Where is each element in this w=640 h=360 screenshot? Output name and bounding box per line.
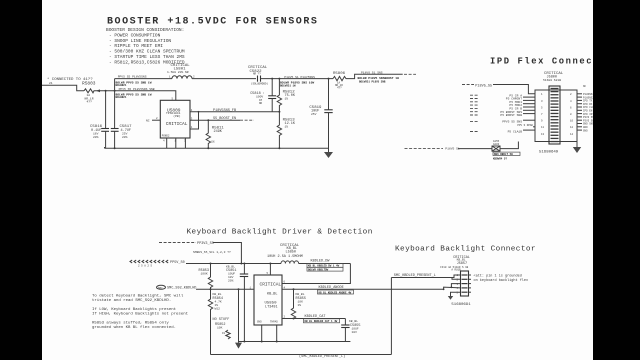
svg-text:KB_BL: KB_BL [349,320,358,323]
svg-text:R5853 always stuffed, R5854 on: R5853 always stuffed, R5854 only [92,321,169,326]
pin wires left [523,97,535,130]
net KBDLED_ANODE [282,286,444,294]
wire detect to ground [238,289,240,341]
svg-text:10K: 10K [217,327,223,330]
connector J5800 body [535,86,577,144]
connector J5800 header [543,72,564,82]
svg-text:If HIGH, Keyboard Backlights n: If HIGH, Keyboard Backlights not present [92,311,188,316]
svg-text:SMC_S92_KBDLHD: SMC_S92_KBDLHD [167,286,196,290]
svg-text:PGND2: PGND2 [162,135,170,138]
svg-text:SMBUS_S5_SCL 1,2,3 ??: SMBUS_S5_SCL 1,2,3 ?? [193,251,231,254]
node 5V rail junctions [210,263,272,265]
svg-text:- RIPPLE TO MEET EMI: - RIPPLE TO MEET EMI [109,43,163,49]
node anode junction [293,288,295,290]
node FB junction [278,111,280,113]
svg-text:20%: 20% [93,136,99,139]
svg-text:NO STUFF: NO STUFF [213,318,230,322]
svg-text:<att: pin 1 is grounded: <att: pin 1 is grounded [474,273,522,278]
svg-text:W12: W12 [215,308,221,311]
svg-text:20%: 20% [122,136,128,139]
wire present to pins1-2 [391,275,460,279]
wire U5809 gnd pins [167,138,186,148]
wire U5850 gnd pins [262,325,277,342]
svg-text:CRITICAL: CRITICAL [166,121,188,127]
resistor R5855 [291,289,306,318]
resistor R5806 [333,72,403,90]
svg-text:P18V5 S1: P18V5 S1 [445,148,460,151]
svg-text:(SOLUDMOBO): (SOLUDMOBO) [251,82,269,86]
wire U5850 vin pin [269,264,271,276]
svg-text:P18V5_S5: P18V5_S5 [475,84,492,88]
net label P18V5_S1 group [280,76,315,87]
node junction A [105,90,107,92]
svg-text:PP3V3_S5: PP3V3_S5 [197,242,214,246]
svg-text:KBDWR4 5?: KBDWR4 5? [493,158,507,161]
svg-text:BOLWR KBDLTDW: BOLWR KBDLTDW [308,269,329,272]
svg-text:Keyboard Backlight Connector: Keyboard Backlight Connector [395,245,536,253]
svg-text:12: 12 [570,126,574,129]
svg-text:LT3491: LT3491 [265,305,278,309]
net SMC_KBDLED_PRESENT_L label [394,274,436,278]
note CONNECTED TO [47,77,93,85]
svg-text:21: 21 [49,82,53,85]
label 51680691 [451,303,471,307]
pin feed dashes left [470,95,479,131]
wire rail riser [114,79,116,129]
svg-text:KBDLED_DW: KBDLED_DW [311,260,331,264]
svg-text:P5 C1A1B: P5 C1A1B [508,131,523,134]
svg-text:2 5 8 2 5: 2 5 8 2 5 [138,265,152,268]
svg-text:BOOSTER +18.5VDC FOR SENSORS: BOOSTER +18.5VDC FOR SENSORS [107,17,318,28]
capacitor C5817 [111,125,132,148]
svg-text:1%: 1% [285,98,289,101]
node EN junction [207,119,209,121]
svg-text:(SMC_KBDLED_PRESENT_L): (SMC_KBDLED_PRESENT_L) [299,354,345,359]
wire dash continuation [404,73,416,75]
wire mid rail to U5809 [115,91,176,101]
svg-text:NR: NR [259,102,263,105]
svg-text:KB_BL: KB_BL [267,293,278,297]
svg-text:GND: GND [257,321,262,324]
svg-text:NR ??: NR ?? [253,72,261,75]
note pin1 grounded [474,273,529,283]
capacitor C5855 [341,319,360,342]
resistor R5854 [208,289,223,354]
svg-text:P5 BOOST SNB: P5 BOOST SNB [500,114,522,117]
svg-text:10V: 10V [352,331,358,334]
node rail junction C5818 [271,78,273,80]
svg-text:GND: GND [583,129,588,132]
svg-text:BOLWR21: BOLWR21 [116,84,127,87]
svg-text:KBDLED_ANODE: KBDLED_ANODE [319,286,344,290]
capacitor C5822 [248,66,268,85]
svg-text:NC: NC [146,120,150,123]
resistor R5853 [199,264,213,290]
svg-text:47?: 47? [87,101,93,104]
wire rail after L5801 [192,78,256,80]
svg-text:249K: 249K [214,130,223,134]
wire U5809 FB net [190,109,279,113]
capacitor C5818 [250,79,276,112]
svg-text:KBDLED_CAT: KBDLED_CAT [305,315,326,319]
inductor L5801 [167,64,195,79]
svg-text:51680 S21B: 51680 S21B [543,79,561,82]
svg-text:A203: A203 [493,143,500,146]
svg-text:P18V5SNS_FB: P18V5SNS_FB [213,109,236,113]
wire SW return to U5850 [282,264,350,284]
svg-text:PPV5 S5 P18V5SNS: PPV5 S5 P18V5SNS [118,76,147,79]
ground symbol top rail [324,152,333,158]
svg-text:1%: 1% [285,126,289,129]
IC U5850 [250,272,286,325]
capacitor C5819 [309,79,332,152]
inductor L5850 [267,244,303,264]
svg-text:SMC: SMC [158,287,163,290]
wire U5809 VIN pin [146,120,160,123]
svg-text:47?: 47? [337,87,342,90]
svg-text:1.5UH 20% NR: 1.5UH 20% NR [167,71,189,74]
svg-text:L5850: L5850 [286,251,297,255]
wire bead to connector [500,142,518,149]
net PP3V3_S5 feed [159,242,241,264]
svg-text:PPV5 S5 P18V5SNS SNB: PPV5 S5 P18V5SNS SNB [119,88,155,91]
wire top rail P18V5 [115,78,172,80]
svg-text:PP5V_S0: PP5V_S0 [170,261,185,265]
svg-text:- 500/300 KHZ CLEAN SPECTRUM: - 500/300 KHZ CLEAN SPECTRUM [109,49,185,55]
net label P18V5_S1_SNS group [358,72,400,84]
title BOOSTER +18.5VDC FOR SENSORS [107,17,318,28]
resistor R5803 [42,81,115,104]
svg-text:Keyboard Backlight Driver & De: Keyboard Backlight Driver & Detection [187,229,373,237]
connector pin numbers [541,93,574,136]
svg-text:NC: NC [583,85,587,88]
svg-text:P18V5 S1 P18V5SNS: P18V5 S1 P18V5SNS [284,76,315,79]
svg-text:51680691: 51680691 [451,303,471,307]
svg-text:tristate and read SMC_S92_KBDL: tristate and read SMC_S92_KBDLHD. [92,298,171,303]
net KBDLED_CAT [282,315,345,323]
svg-text:51680649: 51680649 [539,151,559,155]
right letterbox bar [593,0,640,360]
svg-text:A RU1B: A RU1B [451,269,461,272]
title Keyboard Backlight Connector [395,245,536,253]
net label PPV5_S5_P18V5SNS_SNB [116,88,155,99]
svg-text:25V: 25V [311,113,317,116]
node ground rail junctions [243,341,277,343]
svg-text:PPV S NPAD: PPV S NPAD [517,124,533,127]
node detect junctions [210,288,240,290]
note SMBUS [193,251,231,254]
pin net labels left [500,94,533,133]
capacitor C5816 [90,125,109,148]
resistor R5813 [277,112,296,149]
svg-text:(PB): (PB) [173,114,180,118]
wire anode to pins3-4 [443,284,461,291]
wire ground rail [105,147,329,148]
node cat junction [293,318,295,320]
svg-text:BOLWR21 P18V5 SNB: BOLWR21 P18V5 SNB [359,80,386,83]
svg-text:100K: 100K [201,273,208,276]
IC U5809 [156,98,193,143]
net KBDLED_DW [299,260,351,272]
pin net labels right [583,85,594,132]
ground connector right [573,142,581,154]
svg-text:11: 11 [541,126,545,129]
svg-text:P18V0 S1 SNS: P18V0 S1 SNS [361,72,383,75]
node rail junctions [114,147,281,149]
svg-text:S5_BOOST_EN: S5_BOOST_EN [213,117,236,121]
ground symbol bottom [235,342,242,349]
svg-text:BOOSTER DESIGN CONSIDERATION:: BOOSTER DESIGN CONSIDERATION: [106,27,184,33]
net P18V5_S5 top feed [462,84,535,94]
svg-text:KB BL KBDLED CAT 1 4W: KB BL KBDLED CAT 1 4W [305,320,338,323]
net P18V5_S1 bottom feed [405,148,493,151]
svg-text:1%: 1% [222,332,226,335]
svg-text:- POWER CONSUMPTION: - POWER CONSUMPTION [109,32,161,38]
svg-text:KB BL KBDLED ANODE 4W: KB BL KBDLED ANODE 4W [319,291,352,294]
net label KBD boxes below connector [493,152,520,160]
svg-text:KB_BL: KB_BL [296,293,305,296]
wire C5816 drop [105,91,107,129]
resistor R5812 [277,79,296,112]
svg-text:R5803: R5803 [82,81,96,87]
ferrite bead FL5800 [492,140,500,151]
connector J5857 body [457,271,472,296]
wire rail after C5822 [261,78,334,80]
note detection text [92,294,188,330]
svg-text:KB_BL: KB_BL [213,293,222,296]
ground rail bottom [239,341,351,343]
svg-text:If LOW, Keyboard Backlights pr: If LOW, Keyboard Backlights present [92,307,176,312]
net PP5V_S0 feed [130,260,281,267]
design notes block [106,27,185,65]
svg-text:THPAD: THPAD [270,321,278,324]
wire present riser [390,278,392,355]
svg-text:BOLWR21: BOLWR21 [116,96,127,99]
svg-text:KB6 KBDLT 5W: KB6 KBDLT 5W [494,153,513,156]
off-page SMC_S92_KBDLHD [157,285,255,290]
svg-text:14: 14 [570,133,574,136]
net label PPV5_S5_P18V5SNS [116,76,152,87]
capacitor C5851 [226,264,248,342]
label 51680649 [539,151,559,155]
svg-text:R5806: R5806 [333,72,346,76]
left letterbox bar [0,0,42,360]
svg-text:- SNOOP LINE REGULATION: - SNOOP LINE REGULATION [109,38,171,44]
node rail junction C5819 [328,78,330,80]
svg-text:- STARTUP TIME LESS THAN 2MS: - STARTUP TIME LESS THAN 2MS [109,54,185,60]
svg-text:1%: 1% [298,304,302,307]
svg-text:on keyboard backlight flex: on keyboard backlight flex [474,278,529,283]
svg-text:grounded when KB BL flex conne: grounded when KB BL flex connected. [92,325,176,330]
svg-text:13: 13 [541,133,545,136]
pin wires right [577,94,582,130]
svg-text:BOLWR21 1W: BOLWR21 1W [280,84,296,87]
resistor R5811 [206,120,224,148]
svg-text:20%: 20% [228,280,234,283]
resistor R5852 nostuff [213,318,231,339]
svg-text:CRITICAL: CRITICAL [260,282,282,288]
title IPD Flex Connector [490,57,614,67]
node rail junction R5812 [278,78,280,80]
wire U5809 pin3 riser [190,111,199,129]
net SMC_KBDLED_PRESENT_L bottom [211,354,392,359]
wire U5809 EN net [190,117,254,121]
svg-text:To detect Keyboard Backlight,: To detect Keyboard Backlight, SMC will [92,294,184,299]
svg-text:10UH 2.5A 1.5MOHM: 10UH 2.5A 1.5MOHM [267,255,303,259]
wire gnd pin5 [448,292,461,300]
title Keyboard Backlight Driver & Detection [187,229,373,237]
svg-text:1%: 1% [211,141,215,144]
connector J5857 header [440,256,470,272]
svg-text:10: 10 [570,120,574,123]
